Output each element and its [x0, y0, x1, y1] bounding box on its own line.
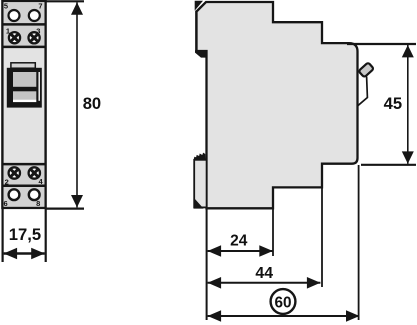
svg-text:80: 80 [83, 94, 101, 113]
terminal hole 7 [29, 10, 40, 21]
switch right white strip [39, 72, 40, 101]
toggle lever [358, 77, 368, 106]
screw 2 [9, 167, 20, 178]
svg-text:1: 1 [6, 27, 10, 36]
dim 17.5 line [4, 252, 45, 255]
extension line x=358.6 [358, 165, 360, 320]
dim 45 line [407, 45, 409, 164]
divider line A [2, 23, 45, 26]
switch frame block [7, 68, 42, 108]
terminal hole 5 [9, 10, 20, 21]
divider line B [2, 46, 45, 49]
dim 17.5 left extension line [1, 209, 3, 262]
screw 4 [29, 167, 40, 178]
toggle knob [358, 62, 373, 77]
terminal block top fill [4, 2, 45, 47]
dim 44 arrow right [307, 277, 321, 289]
dim 60 arrow right [346, 310, 360, 322]
switch tab [11, 63, 35, 68]
dim 80 bottom extension line [46, 208, 84, 210]
dim 45 top extension line [347, 43, 416, 45]
side body outline [197, 2, 358, 208]
svg-text:5: 5 [4, 2, 8, 11]
svg-text:7: 7 [38, 2, 42, 11]
terminal hole 6 [9, 189, 20, 200]
extension line x=273 [272, 209, 274, 256]
left edge upper [195, 11, 197, 52]
extension line x=322 [321, 189, 323, 288]
dim 24 line [208, 250, 273, 252]
DIN clip bottom black triangle [194, 198, 204, 209]
svg-text:6: 6 [4, 199, 8, 208]
label 60 circle [271, 289, 296, 314]
switch bottom white strip [13, 100, 36, 103]
extension line left (x=206.6) [206, 209, 208, 320]
dim 24 arrow right [259, 245, 273, 257]
divider line D [2, 184, 45, 187]
dim 45 bottom extension line [361, 164, 416, 166]
svg-text:24: 24 [230, 232, 248, 249]
screw 1 [9, 32, 20, 43]
dim 80 line [76, 2, 78, 207]
top-left black wedge [195, 1, 203, 11]
svg-text:45: 45 [384, 94, 402, 113]
dim 60 arrow left [208, 310, 222, 322]
dim 24 arrow left [208, 245, 222, 257]
dim 80 arrow down [71, 195, 83, 207]
dim 44 arrow left [208, 277, 222, 289]
svg-text:3: 3 [36, 27, 40, 36]
svg-text:2: 2 [5, 177, 9, 186]
divider line C [2, 163, 45, 166]
svg-text:44: 44 [255, 265, 273, 282]
svg-text:60: 60 [274, 295, 291, 312]
dim 80 arrow up [71, 2, 83, 14]
svg-text:8: 8 [36, 199, 40, 208]
dim 80 top extension line [46, 0, 84, 2]
switch handle lower [13, 91, 36, 100]
switch handle upper [13, 72, 36, 87]
dim 60 line [208, 315, 360, 317]
dim 17.5 arrow right [31, 248, 45, 260]
dim 44 line [208, 282, 321, 284]
dim 45 arrow down [402, 151, 414, 163]
screw 3 [28, 32, 39, 43]
dim 45 arrow up [402, 45, 414, 57]
svg-text:17,5: 17,5 [9, 225, 41, 244]
dim 17.5 arrow left [4, 248, 18, 260]
module body outline [2, 1, 45, 208]
terminal hole 8 [29, 189, 40, 200]
terminal block bottom fill [4, 164, 45, 207]
DIN clip spring serration [194, 153, 206, 160]
DIN clip rectangle [194, 160, 206, 208]
top hook black wedge [195, 50, 207, 57]
dim 17.5 right extension line [45, 209, 47, 262]
